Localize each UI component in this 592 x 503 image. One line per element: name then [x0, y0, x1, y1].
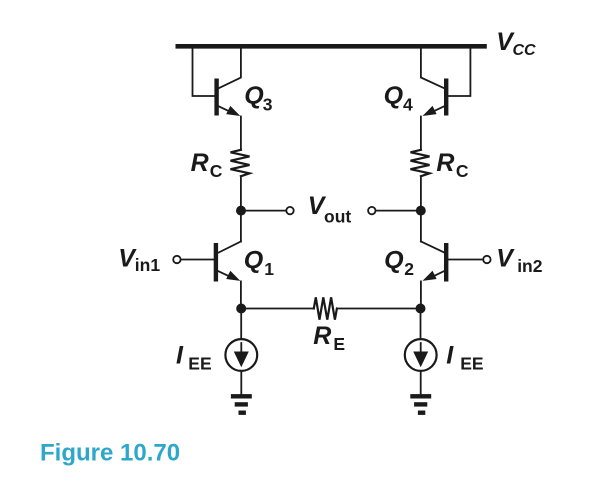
wire Q3 emitter to Rc: [240, 117, 242, 150]
svg-text:R: R: [191, 149, 209, 177]
Vcc rail: [176, 44, 487, 49]
node tail left: [236, 304, 246, 314]
svg-text:2: 2: [404, 259, 414, 279]
svg-text:out: out: [324, 207, 351, 227]
terminal Vin2: [483, 256, 490, 263]
ground right: [410, 394, 431, 398]
svg-text:in2: in2: [517, 256, 543, 276]
wire Vout right terminal to node: [376, 210, 421, 212]
resistor Rc (left): [231, 150, 250, 176]
current source Iee right: [405, 339, 437, 371]
node left output: [236, 206, 246, 216]
svg-text:Q: Q: [244, 82, 264, 110]
wire tail right node to Iee: [420, 309, 422, 339]
wire Q2 emitter to tail node: [420, 281, 422, 308]
wire Q1 emitter to tail node: [240, 281, 242, 308]
terminal Vout left: [286, 207, 293, 214]
wire Q4 collector to Vcc: [421, 48, 445, 88]
svg-text:1: 1: [264, 259, 274, 279]
resistor Rc (right): [411, 150, 430, 176]
svg-text:EE: EE: [188, 353, 211, 373]
svg-text:R: R: [313, 322, 331, 350]
svg-text:C: C: [210, 161, 223, 181]
wire tail left to Re: [241, 308, 314, 310]
node tail right: [416, 304, 426, 314]
wire node to Vout terminal: [241, 210, 286, 212]
svg-text:Figure 10.70: Figure 10.70: [40, 440, 180, 467]
transistor Q2: [444, 243, 448, 282]
svg-text:Q: Q: [384, 82, 404, 110]
svg-text:4: 4: [403, 94, 413, 114]
terminal Vout right: [368, 207, 375, 214]
transistor Q4: [444, 79, 448, 116]
wire Vin1 to Q1 base: [181, 259, 214, 261]
transistor Q3: [214, 79, 218, 116]
terminal Vin1: [173, 256, 180, 263]
wire Rc to output node: [240, 176, 242, 210]
svg-text:in1: in1: [135, 255, 161, 275]
wire Rc to output node right: [420, 176, 422, 210]
wire Q4 base to Vcc: [448, 48, 470, 96]
svg-text:R: R: [436, 149, 454, 177]
wire node to Q1 collector: [240, 211, 242, 242]
ground left: [231, 394, 252, 398]
svg-text:3: 3: [263, 94, 273, 114]
wire Iee right to ground: [420, 371, 422, 394]
transistor Q1: [214, 243, 218, 282]
wire node to Q2 collector: [420, 211, 422, 242]
svg-text:V: V: [496, 245, 515, 273]
resistor Re: [314, 297, 337, 319]
node right output: [416, 206, 426, 216]
svg-text:I: I: [446, 342, 454, 370]
wire Iee left to ground: [240, 371, 242, 394]
wire Q4 emitter to Rc: [420, 117, 422, 150]
wire Q2 base to Vin2: [448, 259, 482, 261]
svg-text:I: I: [176, 342, 184, 370]
svg-text:Q: Q: [384, 246, 404, 274]
wire Q3 collector to Vcc: [219, 48, 241, 88]
current source Iee left: [225, 339, 257, 371]
wire tail left node to Iee: [240, 309, 242, 339]
svg-text:Q: Q: [244, 246, 264, 274]
wire Re to tail right: [337, 308, 421, 310]
svg-text:CC: CC: [513, 42, 537, 59]
wire Q3 base to Vcc: [193, 48, 215, 96]
svg-text:EE: EE: [460, 353, 483, 373]
svg-text:E: E: [333, 334, 345, 354]
svg-text:C: C: [456, 161, 469, 181]
